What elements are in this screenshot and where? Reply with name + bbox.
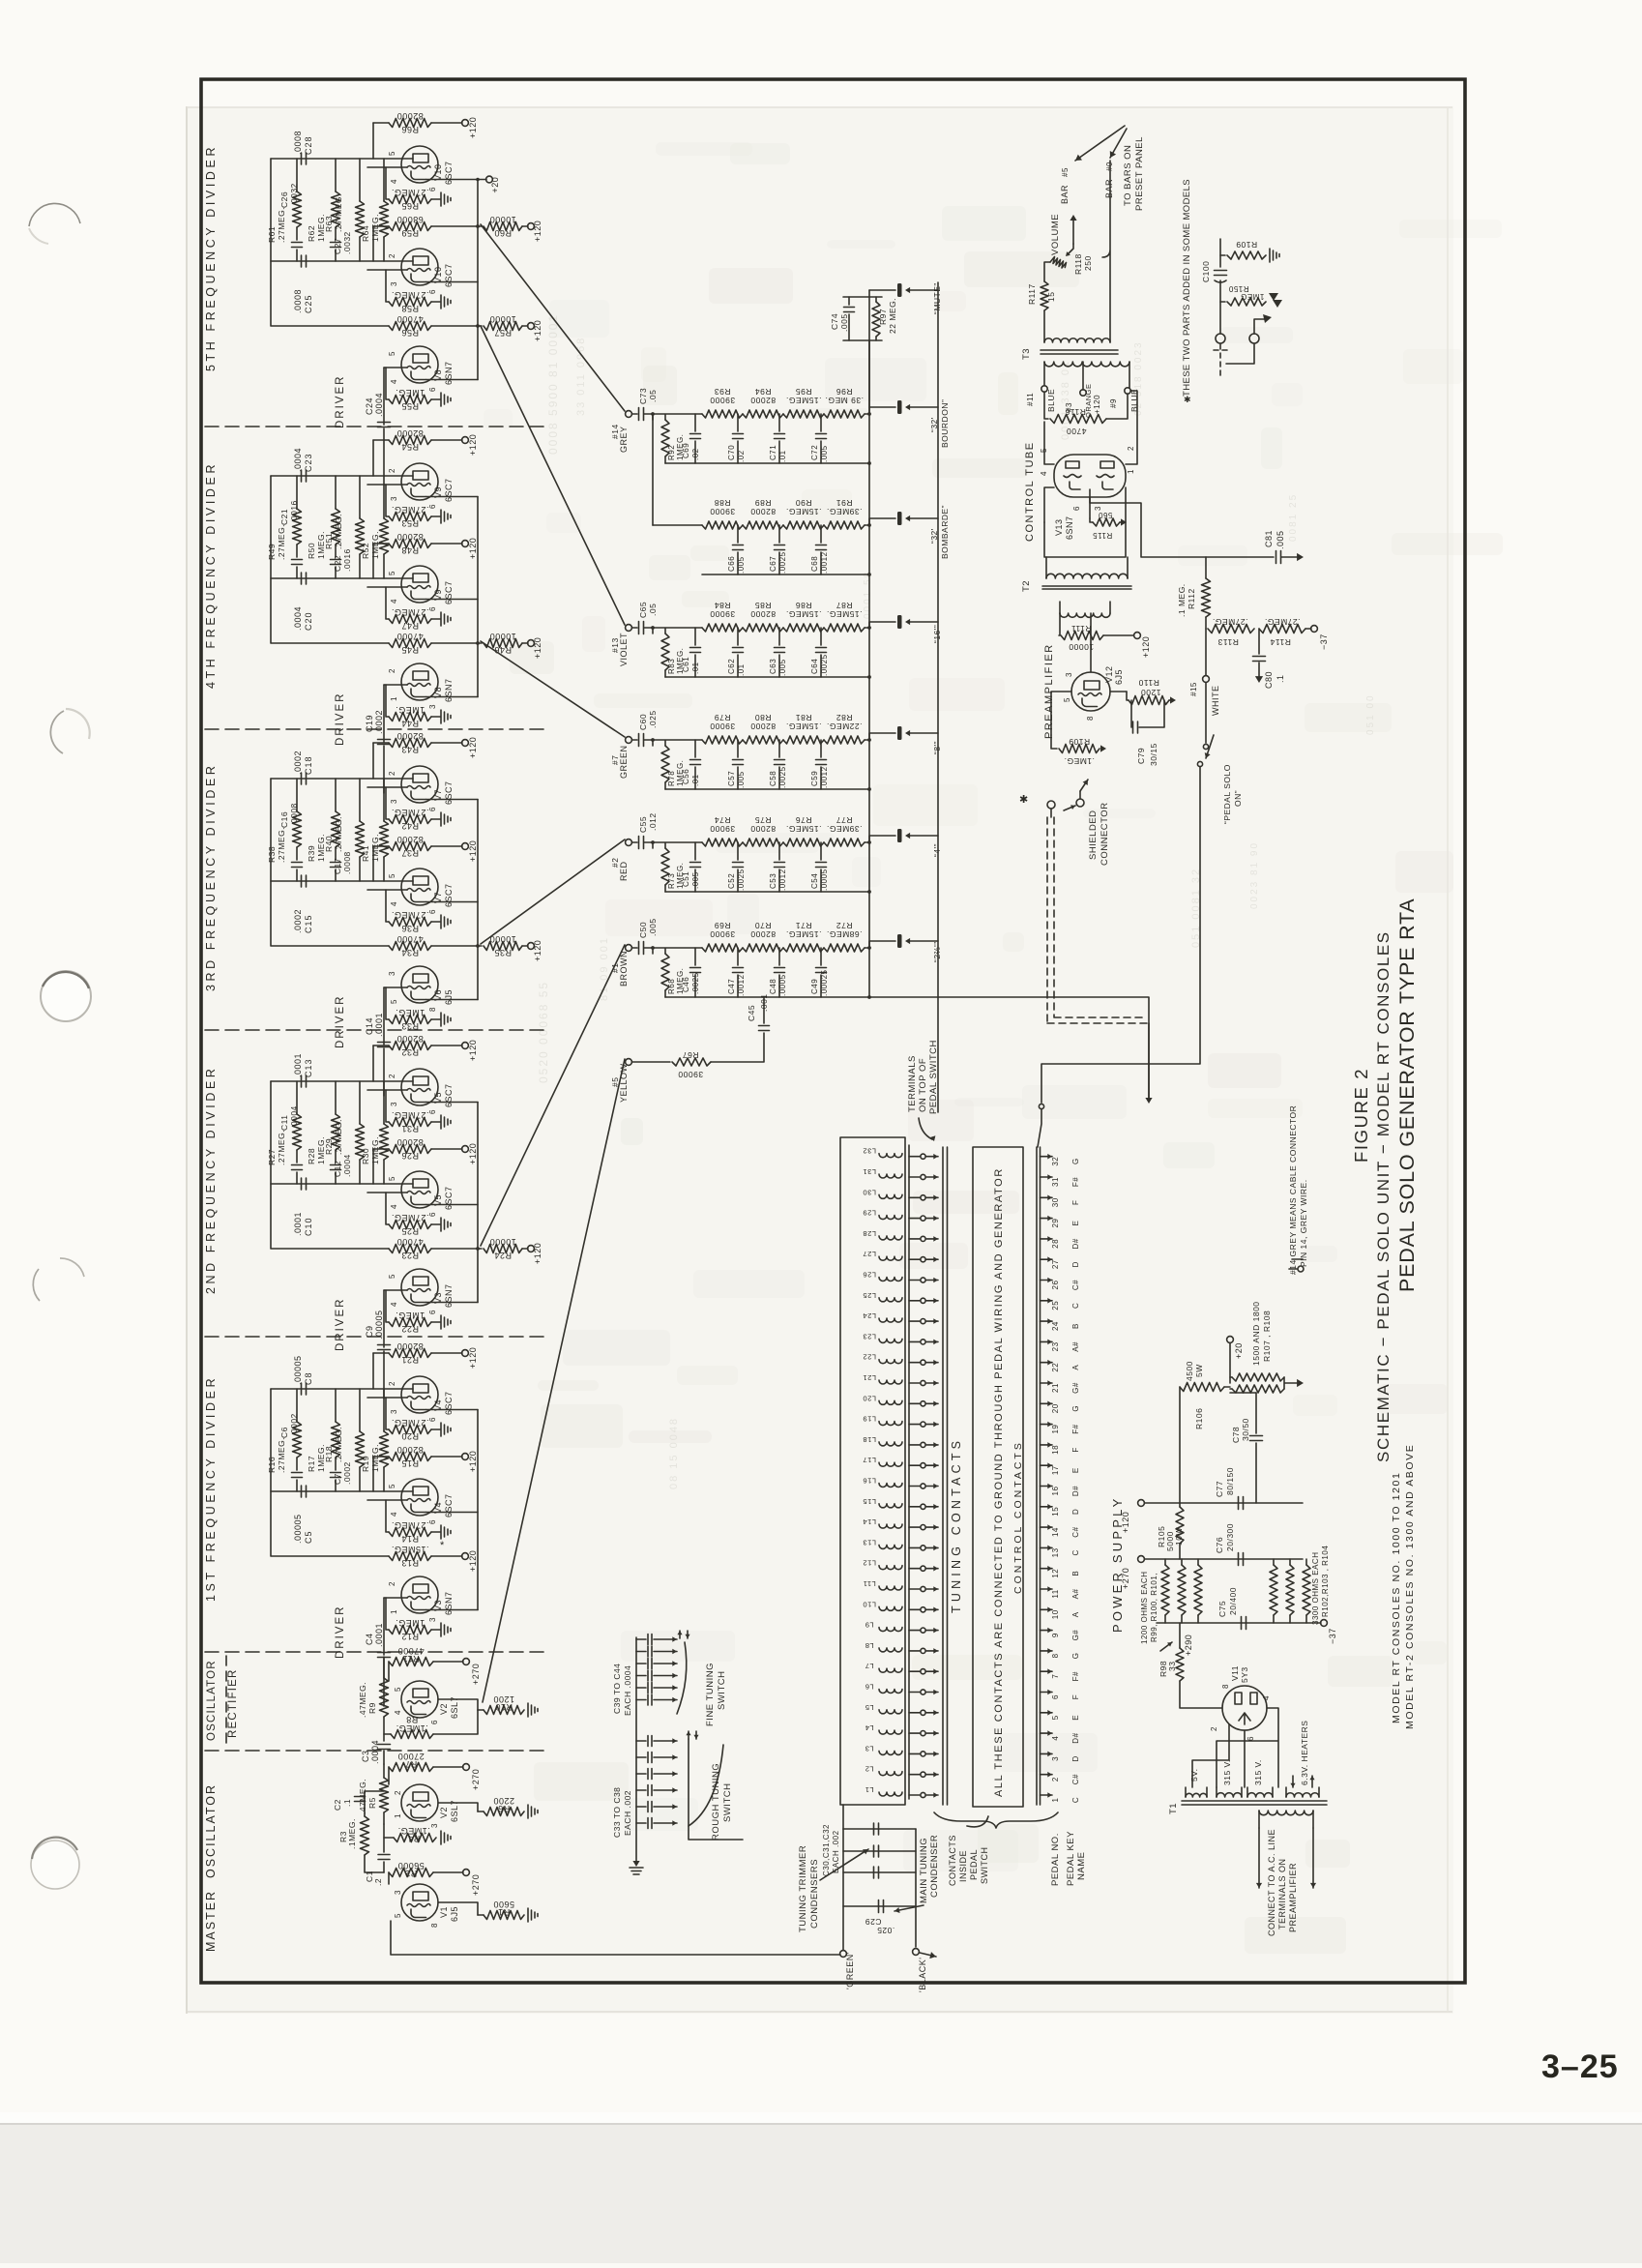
tube V8 6SN7 bbox=[401, 663, 438, 700]
resistor R66 bbox=[373, 122, 389, 124]
contact 10 bbox=[909, 1608, 920, 1610]
svg-text:RED: RED bbox=[619, 861, 629, 881]
svg-text:+120: +120 bbox=[1121, 1512, 1130, 1533]
ground bbox=[431, 818, 440, 820]
wire tube leads bbox=[372, 1457, 374, 1491]
connector plug “8'” bbox=[869, 733, 895, 740]
svg-text:3: 3 bbox=[428, 704, 437, 709]
svg-text:EACH .002: EACH .002 bbox=[623, 1790, 632, 1836]
svg-text:R48: R48 bbox=[401, 545, 419, 555]
svg-text:6: 6 bbox=[428, 387, 437, 392]
svg-text:0081 25: 0081 25 bbox=[1288, 493, 1299, 542]
svg-text:R24: R24 bbox=[494, 1251, 512, 1260]
svg-text:R109: R109 bbox=[1069, 737, 1090, 747]
contact 30 bbox=[909, 1196, 920, 1198]
svg-text:R70: R70 bbox=[754, 921, 771, 930]
svg-text:R80: R80 bbox=[754, 713, 771, 722]
connector plug “16'” bbox=[869, 622, 895, 628]
wire feedback left vertical bbox=[271, 159, 389, 326]
svg-text:.012: .012 bbox=[648, 812, 658, 831]
svg-text:R76: R76 bbox=[795, 815, 811, 825]
capacitor C79 bbox=[1130, 700, 1132, 727]
svg-text:.0012: .0012 bbox=[778, 869, 787, 891]
note box all contacts grounded bbox=[973, 1147, 1023, 1807]
svg-text:C72: C72 bbox=[810, 445, 819, 460]
svg-text:L8: L8 bbox=[865, 1641, 873, 1650]
control contact arrow 29 bbox=[1041, 1218, 1053, 1220]
svg-text:47000: 47000 bbox=[396, 632, 424, 641]
wire to T2 bbox=[1044, 487, 1126, 557]
svg-text:L26: L26 bbox=[863, 1271, 876, 1280]
wire tube leads bbox=[372, 226, 374, 261]
svg-text:4: 4 bbox=[1262, 1695, 1271, 1700]
svg-text:“4'”: “4'” bbox=[932, 843, 942, 857]
resistor R41 bbox=[383, 779, 385, 881]
svg-text:47000: 47000 bbox=[396, 314, 424, 324]
svg-text:.0002: .0002 bbox=[342, 1461, 352, 1485]
svg-text:.05: .05 bbox=[648, 604, 658, 616]
svg-text:SWITCH: SWITCH bbox=[722, 1783, 733, 1822]
T1 secondary bbox=[1259, 1811, 1313, 1815]
svg-text:L24: L24 bbox=[863, 1311, 876, 1320]
svg-text:C62: C62 bbox=[727, 659, 736, 674]
svg-text:10000: 10000 bbox=[489, 934, 516, 944]
terminal RED bbox=[626, 839, 632, 846]
svg-text:3: 3 bbox=[390, 496, 398, 501]
wire tube leads bbox=[384, 1597, 407, 1599]
contact 27 bbox=[909, 1258, 920, 1260]
svg-text:C2: C2 bbox=[333, 1799, 342, 1811]
svg-text:.15MEG.: .15MEG. bbox=[785, 824, 821, 834]
svg-text:82000: 82000 bbox=[396, 1034, 424, 1044]
arrow to BAR 0 bbox=[1110, 129, 1127, 158]
svg-text:L22: L22 bbox=[863, 1353, 876, 1362]
svg-text:1MEG.: 1MEG. bbox=[370, 1444, 380, 1472]
capacitor shunt first bbox=[694, 740, 696, 757]
wire mute bbox=[868, 340, 870, 407]
svg-text:R23: R23 bbox=[401, 1251, 419, 1260]
capacitor C12 bbox=[335, 1150, 337, 1163]
svg-text:R4: R4 bbox=[408, 1834, 421, 1843]
control contact arrow 32 bbox=[1041, 1156, 1053, 1158]
svg-text:14: 14 bbox=[1051, 1527, 1060, 1537]
svg-text:WHITE: WHITE bbox=[1211, 686, 1220, 717]
svg-text:+120: +120 bbox=[468, 1451, 478, 1472]
terminal +20 bbox=[486, 176, 493, 183]
svg-text:R55: R55 bbox=[401, 401, 419, 411]
svg-text:R14: R14 bbox=[401, 1534, 419, 1544]
svg-text:1: 1 bbox=[1127, 469, 1135, 474]
svg-text:.0008: .0008 bbox=[342, 851, 352, 874]
svg-text:R32: R32 bbox=[401, 1047, 419, 1057]
terminal 11 BLUE bbox=[1041, 386, 1047, 392]
capacitor C57 bbox=[737, 740, 739, 757]
terminal +120 bbox=[431, 1555, 462, 1557]
svg-text:TERMINALS ON: TERMINALS ON bbox=[1277, 1858, 1287, 1929]
svg-text:82000: 82000 bbox=[396, 731, 424, 741]
svg-text:.00005: .00005 bbox=[293, 1355, 303, 1385]
svg-text:#11: #11 bbox=[1026, 393, 1035, 406]
svg-text:.025: .025 bbox=[648, 710, 658, 728]
resistor R51 bbox=[359, 476, 361, 578]
tube V9 6SC7 bbox=[401, 463, 438, 500]
terminal +120 bbox=[522, 1248, 528, 1250]
svg-text:31: 31 bbox=[1051, 1177, 1060, 1187]
svg-text:L10: L10 bbox=[863, 1600, 876, 1608]
svg-text:3: 3 bbox=[394, 1890, 402, 1895]
svg-text:3: 3 bbox=[1094, 506, 1102, 511]
svg-text:R18: R18 bbox=[324, 1446, 334, 1462]
svg-text:24: 24 bbox=[1051, 1321, 1060, 1331]
svg-text:C18: C18 bbox=[304, 755, 313, 775]
svg-text:2: 2 bbox=[388, 668, 396, 673]
svg-text:+20: +20 bbox=[1234, 1342, 1244, 1359]
svg-text:5: 5 bbox=[388, 351, 396, 356]
svg-text:R79: R79 bbox=[714, 713, 730, 722]
svg-text:SWITCH: SWITCH bbox=[717, 1671, 727, 1710]
svg-text:G#: G# bbox=[1071, 1382, 1080, 1394]
resistor R28 bbox=[335, 1081, 337, 1114]
svg-text:4: 4 bbox=[390, 599, 398, 604]
svg-text:1MEG.: 1MEG. bbox=[370, 1136, 380, 1164]
svg-text:MASTER: MASTER bbox=[204, 1890, 218, 1952]
inductor L11 bbox=[879, 1586, 902, 1590]
tube V1 6J5 bbox=[401, 1884, 438, 1921]
svg-text:C6: C6 bbox=[279, 1427, 289, 1438]
resistor R50 bbox=[335, 476, 337, 509]
svg-text:V13: V13 bbox=[1054, 518, 1064, 536]
svg-text:R8: R8 bbox=[406, 1715, 419, 1724]
svg-text:A: A bbox=[1071, 1611, 1080, 1617]
resistor R67 bbox=[632, 1061, 670, 1063]
svg-text:TO BARS ON: TO BARS ON bbox=[1123, 145, 1133, 206]
terminal BROWN bbox=[626, 945, 632, 952]
svg-text:R34: R34 bbox=[401, 948, 419, 957]
svg-text:R111: R111 bbox=[1070, 624, 1091, 633]
svg-text:6J5: 6J5 bbox=[444, 989, 454, 1005]
contact 16 bbox=[909, 1486, 920, 1487]
resistor R32 bbox=[373, 1045, 389, 1046]
svg-text:4: 4 bbox=[390, 179, 398, 184]
svg-text:C5: C5 bbox=[304, 1530, 313, 1544]
svg-text:6SC7: 6SC7 bbox=[444, 580, 454, 604]
wire cable run vertical bbox=[937, 282, 939, 1112]
svg-text:PEDAL NO.: PEDAL NO. bbox=[1050, 1833, 1061, 1886]
resistor R59 bbox=[373, 225, 389, 227]
resistor R63 bbox=[359, 159, 361, 261]
tube V4 6SC7 bbox=[401, 1376, 438, 1413]
svg-text:4: 4 bbox=[390, 1512, 398, 1517]
svg-text:.0004: .0004 bbox=[293, 448, 303, 472]
svg-text:C14: C14 bbox=[365, 1017, 374, 1035]
tube V2 6SL7 b bbox=[401, 1784, 438, 1821]
svg-text:R27: R27 bbox=[267, 1149, 277, 1165]
svg-text:1MEG.: 1MEG. bbox=[396, 1311, 425, 1320]
capacitor C9 bbox=[378, 1345, 391, 1350]
resistor R34 bbox=[389, 942, 431, 951]
capacitor C49 bbox=[820, 948, 822, 965]
svg-text:R11: R11 bbox=[402, 1654, 419, 1664]
svg-text:4500: 4500 bbox=[1185, 1361, 1194, 1381]
svg-text:R115: R115 bbox=[1093, 531, 1113, 540]
resistor R35 bbox=[431, 945, 482, 947]
svg-text:R29: R29 bbox=[324, 1138, 334, 1155]
svg-text:.02: .02 bbox=[691, 448, 700, 460]
svg-text:25: 25 bbox=[1051, 1301, 1060, 1311]
svg-text:R67: R67 bbox=[682, 1050, 698, 1060]
svg-text:PEDAL SOLO GENERATOR TYPE RTA: PEDAL SOLO GENERATOR TYPE RTA bbox=[1395, 898, 1419, 1292]
resistor R36 bbox=[386, 890, 389, 922]
ground bbox=[441, 1831, 451, 1844]
svg-text:C8: C8 bbox=[304, 1371, 313, 1385]
svg-text:ON”: ON” bbox=[1233, 790, 1243, 807]
svg-text:.0001: .0001 bbox=[293, 1212, 303, 1236]
svg-text:R52: R52 bbox=[361, 543, 370, 559]
svg-text:.27MEG.: .27MEG. bbox=[334, 1427, 343, 1462]
terminal +120 bbox=[522, 945, 528, 947]
svg-text:C25: C25 bbox=[304, 294, 313, 313]
terminal 9 BLUE bbox=[1125, 388, 1130, 394]
contact 5 bbox=[909, 1712, 920, 1714]
resistor R23 bbox=[389, 1245, 431, 1253]
wire bottom rail bbox=[665, 676, 869, 678]
svg-text:BROWN: BROWN bbox=[619, 951, 629, 987]
svg-text:.005: .005 bbox=[820, 445, 829, 462]
contact 2 bbox=[909, 1774, 920, 1776]
wire divider output to BROWN bbox=[481, 945, 625, 1246]
svg-text:.0001: .0001 bbox=[374, 1013, 384, 1037]
svg-text:4: 4 bbox=[390, 379, 398, 384]
svg-text:L6: L6 bbox=[865, 1683, 873, 1692]
resistor R116 bbox=[1044, 392, 1048, 419]
svg-text:B: B bbox=[1071, 1571, 1080, 1576]
resistor R114 bbox=[1259, 625, 1305, 633]
svg-text:6SN7: 6SN7 bbox=[444, 361, 454, 385]
svg-text:39000: 39000 bbox=[710, 929, 735, 939]
terminal +120 bbox=[431, 1456, 462, 1458]
control contact arrow 17 bbox=[1041, 1464, 1053, 1466]
svg-text:+270: +270 bbox=[471, 1874, 481, 1896]
resistor R115 bbox=[1093, 518, 1120, 526]
contact 24 bbox=[909, 1320, 920, 1322]
svg-text:R96: R96 bbox=[836, 387, 852, 397]
wire bbox=[438, 1902, 478, 1915]
svg-text:R30: R30 bbox=[361, 1148, 370, 1164]
svg-text:.1MEG.: .1MEG. bbox=[347, 1818, 357, 1849]
resistor R46 bbox=[431, 642, 482, 644]
tube V3 6SN7 bbox=[401, 1269, 438, 1306]
resistor R72 bbox=[824, 944, 865, 952]
ground bbox=[431, 515, 440, 517]
svg-text:R109: R109 bbox=[1236, 240, 1257, 250]
terminal +120 bbox=[431, 439, 462, 441]
switch common bar bbox=[943, 1147, 948, 1805]
resistor R4 bbox=[394, 1834, 436, 1842]
switch PEDAL SOLO ON bbox=[1205, 683, 1207, 743]
inductor L5 bbox=[879, 1710, 902, 1714]
svg-text:1200 OHMS EACH: 1200 OHMS EACH bbox=[1140, 1572, 1149, 1644]
svg-text:1MEG.: 1MEG. bbox=[396, 1618, 425, 1628]
svg-text:A#: A# bbox=[1071, 1341, 1080, 1352]
svg-text:.0012: .0012 bbox=[820, 766, 829, 788]
svg-text:C47: C47 bbox=[727, 979, 736, 994]
tube V6 6J5 bbox=[401, 966, 438, 1003]
svg-text:.01: .01 bbox=[737, 663, 746, 676]
control contact arrow 8 bbox=[1041, 1650, 1053, 1652]
wire bottom rail bbox=[665, 462, 869, 464]
resistor R90 bbox=[783, 521, 824, 529]
svg-text:.005: .005 bbox=[778, 659, 787, 676]
svg-text:.27 MEG.: .27 MEG. bbox=[334, 193, 343, 232]
resistor R74 bbox=[702, 839, 743, 846]
contact 19 bbox=[909, 1424, 920, 1426]
stage separator dashed line bbox=[205, 1336, 545, 1338]
svg-text:R97: R97 bbox=[878, 309, 888, 325]
svg-text:.02: .02 bbox=[737, 450, 746, 462]
ground bbox=[431, 1531, 440, 1533]
resistor R61 bbox=[296, 159, 298, 191]
svg-text:82000: 82000 bbox=[396, 532, 424, 542]
svg-text:5: 5 bbox=[388, 1176, 396, 1181]
capacitor C60 bbox=[632, 739, 637, 741]
resistor R111 bbox=[1059, 613, 1060, 635]
svg-text:.15MEG.: .15MEG. bbox=[785, 929, 821, 939]
punch hole 2 bbox=[50, 711, 64, 753]
svg-text:R58: R58 bbox=[401, 304, 419, 313]
svg-text:R94: R94 bbox=[754, 387, 771, 397]
svg-text:.0002: .0002 bbox=[374, 710, 384, 734]
svg-text:R15: R15 bbox=[401, 1458, 419, 1468]
wire common to pedal switch bbox=[869, 997, 1149, 1099]
svg-text:+120: +120 bbox=[533, 221, 542, 242]
svg-text:.22MEG.: .22MEG. bbox=[826, 722, 862, 731]
svg-text:C29: C29 bbox=[865, 1917, 881, 1927]
inductor L28 bbox=[879, 1236, 902, 1240]
svg-text:C74: C74 bbox=[830, 313, 839, 330]
svg-text:C23: C23 bbox=[304, 453, 313, 472]
resistor R76 bbox=[783, 839, 824, 846]
wire GREY feed to second network bbox=[652, 414, 654, 525]
ground bbox=[431, 921, 440, 923]
svg-text:FIGURE 2: FIGURE 2 bbox=[1351, 1068, 1371, 1163]
resistor R82 bbox=[824, 736, 865, 744]
ground bbox=[630, 1868, 643, 1874]
svg-text:47000: 47000 bbox=[396, 1237, 424, 1247]
svg-text:C12: C12 bbox=[333, 1161, 342, 1177]
svg-text:SHIELDED: SHIELDED bbox=[1088, 810, 1099, 860]
svg-text:39000: 39000 bbox=[710, 722, 735, 731]
svg-text:10: 10 bbox=[1051, 1609, 1060, 1619]
svg-text:R35: R35 bbox=[494, 948, 512, 957]
svg-text:.27MEG.: .27MEG. bbox=[277, 524, 286, 560]
resistor R88 bbox=[702, 521, 743, 529]
svg-text:C56: C56 bbox=[682, 769, 690, 784]
svg-text:R65: R65 bbox=[401, 201, 419, 211]
control contact arrow 12 bbox=[1041, 1568, 1053, 1570]
svg-text:18: 18 bbox=[1051, 1445, 1060, 1455]
resistor R52 bbox=[383, 476, 385, 578]
capacitor C100 bbox=[1219, 239, 1221, 267]
svg-text:R87: R87 bbox=[836, 601, 852, 610]
svg-text:C50: C50 bbox=[638, 922, 648, 938]
svg-text:+120: +120 bbox=[468, 840, 478, 862]
svg-text:C#: C# bbox=[1071, 1774, 1080, 1784]
terminal 3 ORANGE bbox=[1080, 390, 1086, 396]
svg-text:C3: C3 bbox=[361, 1750, 370, 1762]
svg-text:R84: R84 bbox=[714, 601, 730, 610]
control contact arrow 28 bbox=[1041, 1238, 1053, 1240]
resistor R87 bbox=[824, 624, 865, 632]
svg-text:V1: V1 bbox=[439, 1906, 449, 1918]
svg-text:L32: L32 bbox=[863, 1147, 876, 1156]
svg-text:+120: +120 bbox=[1141, 636, 1151, 658]
svg-text:R106: R106 bbox=[1194, 1408, 1204, 1429]
inductor L17 bbox=[879, 1462, 902, 1466]
svg-text:0023 81 90: 0023 81 90 bbox=[1249, 841, 1260, 909]
svg-text:T3: T3 bbox=[1021, 348, 1032, 360]
resistor R70 bbox=[743, 944, 783, 952]
wire tube leads bbox=[372, 440, 374, 476]
ground bbox=[528, 1805, 538, 1818]
svg-text:SCHEMATIC − PEDAL SOLO UNIT: SCHEMATIC − PEDAL SOLO UNIT − MODEL RT C… bbox=[1374, 930, 1393, 1462]
resistor R96 bbox=[824, 410, 865, 418]
svg-text:R59: R59 bbox=[401, 228, 419, 238]
svg-text:R5: R5 bbox=[367, 1797, 377, 1809]
capacitor C68 bbox=[820, 525, 822, 543]
resistor R10 bbox=[478, 1709, 484, 1711]
svg-text:560: 560 bbox=[1099, 511, 1113, 519]
control contact arrow 19 bbox=[1041, 1424, 1053, 1426]
ground bbox=[431, 1429, 440, 1430]
svg-text:.1: .1 bbox=[1275, 674, 1285, 683]
svg-text:R25: R25 bbox=[401, 1226, 419, 1236]
svg-text:.15MEG.: .15MEG. bbox=[391, 1545, 428, 1554]
contact 12 bbox=[909, 1568, 920, 1570]
capacitor C24 bbox=[378, 423, 391, 427]
svg-text:27: 27 bbox=[1051, 1259, 1060, 1269]
tube V8 6SN7 bbox=[401, 346, 438, 383]
resistor R112 bbox=[1202, 578, 1211, 617]
wire tube leads bbox=[372, 123, 374, 159]
svg-text:C: C bbox=[1071, 1549, 1080, 1555]
control contact arrow 3 bbox=[1041, 1753, 1053, 1754]
svg-text:D: D bbox=[1071, 1261, 1080, 1267]
control contact arrow 22 bbox=[1041, 1362, 1053, 1364]
contact 18 bbox=[909, 1444, 920, 1446]
svg-text:BAR: BAR bbox=[1060, 185, 1070, 204]
inductor L9 bbox=[879, 1628, 902, 1632]
svg-text:R92: R92 bbox=[667, 445, 676, 460]
svg-text:5: 5 bbox=[388, 1484, 396, 1488]
svg-text:C: C bbox=[1071, 1797, 1080, 1803]
wire divider output to GREY bbox=[481, 224, 625, 411]
capacitor C66 bbox=[737, 525, 739, 543]
control contact arrow 14 bbox=[1041, 1526, 1053, 1528]
inductor L31 bbox=[879, 1174, 902, 1178]
svg-text:“MUTE”: “MUTE” bbox=[932, 282, 942, 314]
stage separator dashed line bbox=[205, 426, 545, 427]
svg-text:C61: C61 bbox=[682, 657, 690, 672]
svg-text:BOURDON”: BOURDON” bbox=[940, 399, 950, 448]
svg-text:15: 15 bbox=[1046, 292, 1056, 302]
ground bbox=[528, 1908, 538, 1922]
svg-text:20/300: 20/300 bbox=[1225, 1523, 1235, 1551]
svg-text:#9: #9 bbox=[1109, 398, 1118, 408]
contact 11 bbox=[909, 1588, 920, 1590]
capacitor C77 bbox=[1239, 1497, 1244, 1510]
resistor R117 bbox=[1041, 281, 1048, 310]
svg-text:C17: C17 bbox=[333, 858, 342, 874]
